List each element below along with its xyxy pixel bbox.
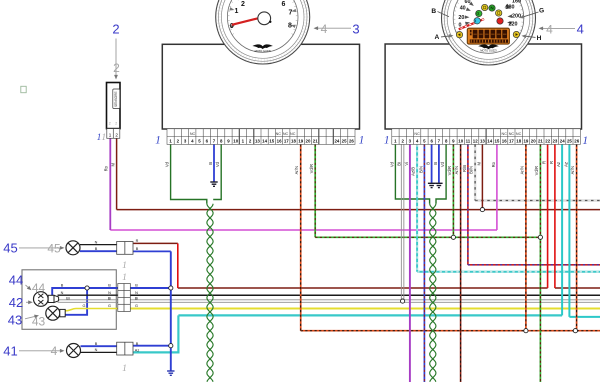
arrow to lamp 45 <box>19 246 65 250</box>
wire B U2 pin7 to ground <box>438 144 440 182</box>
lamp 44/42 (twin filament) <box>34 292 49 307</box>
gauge speedometer (item 4) <box>431 0 544 65</box>
wire Vd U2 pin8 <box>436 144 446 203</box>
wire B/N U2 pin5 <box>423 144 425 382</box>
arrow to lamp 44 <box>26 285 32 290</box>
wire Az/Gr horizontal from U2 pin4 <box>417 271 600 273</box>
connector strip U2 <box>392 129 581 145</box>
tachometer logo <box>252 44 273 49</box>
wire R/B U2 pin11 <box>467 144 469 264</box>
wire Vd/R U2 pin9 <box>452 144 454 237</box>
svg-text:22: 22 <box>545 139 550 144</box>
svg-text:Ro: Ro <box>104 165 109 171</box>
ground U2 pin6 <box>428 183 435 187</box>
indicator lamp turn left <box>456 32 462 38</box>
wire Vd/R horizontal U1 pin21 to U2 pin21 <box>315 236 540 238</box>
wire Bi from lamp 44 <box>58 300 131 303</box>
wire Vd/R U1 pin21 <box>314 144 316 237</box>
svg-text:24: 24 <box>334 139 339 144</box>
connector lamp 45 <box>117 242 133 255</box>
indicator lamp oil red <box>497 18 503 24</box>
wire Ar/N horizontal from U1 pin19 <box>301 330 600 332</box>
svg-text:220: 220 <box>509 21 518 27</box>
svg-text:2: 2 <box>241 1 245 8</box>
wire R from lamp 45 connector <box>133 242 178 244</box>
wire Az U2 pin25 <box>568 144 570 317</box>
component B2 (sensor, item 2) <box>107 83 121 129</box>
junction Ar/N at U2 pin19 <box>524 329 528 333</box>
wire B vertical to ground <box>170 251 172 370</box>
tachometer hub <box>258 12 271 25</box>
svg-text:10: 10 <box>458 139 463 144</box>
svg-text:45: 45 <box>47 241 61 255</box>
lamp 43 <box>46 306 60 320</box>
svg-text:NC: NC <box>190 132 196 136</box>
svg-text:N: N <box>95 348 98 352</box>
svg-text:Az: Az <box>556 162 561 167</box>
wire M vertical from B2 pin2 <box>116 138 118 209</box>
wire Ar/N U1 pin19 <box>300 144 302 330</box>
wire Ro U2 pin15 <box>496 144 498 230</box>
svg-text:3: 3 <box>352 22 359 37</box>
svg-text:24: 24 <box>560 139 565 144</box>
svg-text:Ar/N: Ar/N <box>294 166 299 174</box>
svg-text:Az/B: Az/B <box>411 167 416 176</box>
svg-text:7: 7 <box>289 9 293 16</box>
svg-text:Bi/N: Bi/N <box>469 166 474 174</box>
wire Bi/N U2 pin12 <box>474 144 476 200</box>
svg-text:B: B <box>136 247 139 251</box>
wire Ro horizontal from B2 pin1 to U2 pin15 <box>110 229 497 231</box>
svg-text:26: 26 <box>574 139 579 144</box>
arrow H <box>522 34 536 38</box>
connector lamp 41 <box>117 342 133 355</box>
junction B at 41 <box>169 344 173 348</box>
svg-text:20: 20 <box>306 139 311 144</box>
svg-text:Bi: Bi <box>135 297 139 301</box>
svg-text:26: 26 <box>349 139 354 144</box>
svg-text:SENSORE: SENSORE <box>114 91 118 107</box>
twisted pair left strand B <box>207 204 213 382</box>
wire R vertical from lamp 45 <box>177 243 179 288</box>
svg-text:14: 14 <box>262 139 267 144</box>
arrow to lamp 42 <box>26 300 33 304</box>
legend marker square <box>21 86 26 92</box>
wire R U2 pin22 <box>547 144 549 288</box>
svg-text:60: 60 <box>465 0 471 5</box>
wire N horizontal <box>130 294 600 296</box>
svg-text:B: B <box>136 342 139 346</box>
svg-text:2: 2 <box>113 61 120 75</box>
wire Az horizontal from U2 pin25 to edge <box>569 316 600 318</box>
svg-text:180: 180 <box>506 4 515 10</box>
ground U1 pin7 <box>210 182 217 186</box>
svg-text:4: 4 <box>546 22 553 36</box>
wire Ar/N U2 pin10 <box>460 144 462 382</box>
speedometer logo <box>478 45 499 50</box>
svg-text:23: 23 <box>552 139 557 144</box>
wire N lamp 41 <box>81 351 117 353</box>
indicator lamp fuel yellow <box>496 10 502 16</box>
svg-text:6: 6 <box>282 1 286 8</box>
svg-text:B: B <box>135 284 138 288</box>
junction Vd/R at U2 pin9 <box>451 235 455 239</box>
svg-text:Vd/R: Vd/R <box>534 166 539 175</box>
svg-text:N: N <box>135 291 138 295</box>
svg-text:Vi: Vi <box>404 162 409 166</box>
svg-text:13: 13 <box>480 139 485 144</box>
connector lamp box <box>118 284 131 312</box>
svg-text:13: 13 <box>255 139 260 144</box>
twisted pair left strand A <box>207 204 213 382</box>
svg-text:2: 2 <box>115 121 117 125</box>
svg-text:NC: NC <box>414 132 420 136</box>
svg-text:1: 1 <box>384 135 390 147</box>
instrument body U2 (speedometer unit) <box>385 44 581 129</box>
svg-text:Vd: Vd <box>440 161 445 167</box>
svg-text:Bi: Bi <box>397 162 402 166</box>
svg-text:M: M <box>110 163 115 167</box>
svg-text:G: G <box>108 304 111 308</box>
wire Vd U2 pin1 <box>395 144 429 203</box>
svg-text:8: 8 <box>288 22 292 29</box>
svg-text:B: B <box>95 342 98 346</box>
svg-text:R: R <box>136 239 139 243</box>
svg-text:1: 1 <box>155 135 161 147</box>
svg-text:B: B <box>431 8 436 15</box>
lamp 45 <box>66 241 80 255</box>
svg-text:G: G <box>83 304 86 308</box>
svg-text:20: 20 <box>458 15 464 21</box>
svg-text:14: 14 <box>487 139 492 144</box>
svg-text:N: N <box>95 240 98 244</box>
speedometer needle <box>459 19 484 29</box>
svg-text:NC: NC <box>516 132 522 136</box>
svg-text:43: 43 <box>8 313 22 328</box>
svg-text:1: 1 <box>235 8 239 15</box>
svg-text:12: 12 <box>473 139 478 144</box>
svg-text:18: 18 <box>291 139 296 144</box>
svg-text:4: 4 <box>51 344 58 358</box>
wire R U2 pin23 <box>554 144 556 288</box>
wire Az/Gr U2 pin4 <box>416 144 418 271</box>
twisted pair right strand A <box>430 204 436 382</box>
arrow to lamp 41 <box>19 349 65 353</box>
junction B inside lamp box <box>85 286 89 290</box>
arrow to speedometer <box>539 27 576 31</box>
wire Bi/N horizontal from U2 pin12 <box>475 199 600 201</box>
wire color code labels <box>104 161 576 176</box>
bulb holder 44 <box>48 295 58 302</box>
indicator lamp neutral N <box>489 5 495 11</box>
svg-text:18: 18 <box>516 139 521 144</box>
wire M horizontal from B2 pin2 <box>117 209 600 211</box>
indicator lamp turn right <box>513 31 519 37</box>
lamp housing box (items 42/43/44) <box>22 270 116 330</box>
svg-text:1: 1 <box>359 135 365 147</box>
arrow G <box>520 12 539 18</box>
svg-text:NC: NC <box>290 132 296 136</box>
svg-text:21: 21 <box>313 139 318 144</box>
wire M horizontal from U2 pin23 to edge <box>555 287 600 289</box>
indicator lamp warning yellow 1 <box>482 4 488 10</box>
svg-text:R: R <box>549 161 554 164</box>
svg-text:NC: NC <box>509 132 515 136</box>
svg-text:19: 19 <box>523 139 528 144</box>
svg-text:11: 11 <box>466 139 471 144</box>
wire B lamp 45 <box>80 250 117 252</box>
svg-text:Az: Az <box>563 162 568 167</box>
svg-text:42: 42 <box>9 295 23 310</box>
wire R/B horizontal from U2 pin11 <box>468 264 600 266</box>
svg-text:Ar/N: Ar/N <box>570 166 575 174</box>
wire M U2 pin13 <box>481 144 483 209</box>
junction Ar/N at U2 pin26 <box>573 329 577 333</box>
wire B row from lamp 41 connector <box>130 345 171 347</box>
svg-text:19: 19 <box>298 139 303 144</box>
svg-text:2: 2 <box>115 132 118 137</box>
indicator lamp high beam blue <box>474 18 480 24</box>
instrument body U1 (tachometer unit) <box>162 44 359 129</box>
wire Az vertical from lamp 41 <box>177 315 179 352</box>
svg-text:B: B <box>108 284 111 288</box>
svg-text:21: 21 <box>538 139 543 144</box>
junction B at 45/44 <box>169 286 173 290</box>
wire Vd U1 pin1 <box>171 144 207 203</box>
svg-text:B: B <box>426 162 431 165</box>
wire B U2 pin6 to ground <box>431 144 433 182</box>
svg-text:1: 1 <box>122 261 127 271</box>
wire Bi horizontal <box>130 300 600 303</box>
arrow to tachometer <box>314 26 352 30</box>
svg-text:25: 25 <box>342 139 347 144</box>
svg-text:1: 1 <box>122 273 127 283</box>
svg-text:G: G <box>539 7 544 14</box>
svg-text:Ro: Ro <box>491 161 496 167</box>
wire Ar/N U2 pin26 <box>576 144 578 330</box>
wire B lamp 41 <box>81 345 117 347</box>
wire G from lamp 43 <box>65 309 130 311</box>
arrow A <box>441 34 454 38</box>
wire G horizontal <box>130 308 600 310</box>
wire N from lamp 44 <box>58 294 131 296</box>
wire B from lamp 44 <box>52 288 130 296</box>
svg-text:N: N <box>61 291 64 295</box>
bulb holder 43 <box>60 309 65 316</box>
svg-text:Vd/R: Vd/R <box>309 164 314 173</box>
svg-text:45: 45 <box>3 241 17 256</box>
arrow to B2 <box>114 39 118 80</box>
junction M at U2 pin13 <box>480 208 484 212</box>
svg-text:25: 25 <box>567 139 572 144</box>
svg-text:B: B <box>208 162 213 165</box>
wire B from lamp 43 <box>65 288 87 315</box>
wire B row from lamp box connector <box>130 287 171 289</box>
svg-text:1: 1 <box>582 135 588 147</box>
twisted pair right strand B <box>430 204 436 382</box>
gauge tachometer (item 3) <box>216 0 310 64</box>
svg-text:G: G <box>135 304 138 308</box>
wire Az U2 pin24 <box>561 144 563 315</box>
junction Bi at U2 pin2 <box>401 299 405 303</box>
connector strip U1 <box>167 129 355 145</box>
svg-text:16: 16 <box>502 139 507 144</box>
svg-text:1: 1 <box>122 364 127 374</box>
svg-text:20: 20 <box>531 139 536 144</box>
wire B U1 pin7 to ground <box>213 144 215 181</box>
svg-text:1: 1 <box>101 133 106 143</box>
wire Az horizontal to U2 pin24 <box>178 314 562 316</box>
wire Vd U1 pin8 <box>213 144 221 199</box>
svg-text:Bi: Bi <box>108 297 112 301</box>
indicator lamp headlight green <box>476 10 482 16</box>
svg-text:44: 44 <box>9 273 23 288</box>
wire M horizontal to U2 pin22 <box>178 287 548 289</box>
wire Az row from lamp 41 connector <box>132 351 180 353</box>
svg-text:Vd: Vd <box>165 161 170 167</box>
svg-text:4: 4 <box>577 22 584 37</box>
svg-text:1: 1 <box>109 132 112 137</box>
svg-text:Vd/R: Vd/R <box>447 166 452 175</box>
tachometer needle <box>232 18 258 24</box>
svg-text:Ar/N: Ar/N <box>454 166 459 174</box>
svg-text:2: 2 <box>112 22 119 37</box>
wire Ro vertical from B2 pin1 <box>109 138 111 230</box>
svg-text:Vd: Vd <box>215 161 220 167</box>
lamp 41 <box>67 344 81 358</box>
svg-text:15: 15 <box>269 139 274 144</box>
svg-text:MOTO GUZZI: MOTO GUZZI <box>480 49 497 53</box>
svg-text:Vd: Vd <box>389 161 394 167</box>
svg-text:16: 16 <box>277 139 282 144</box>
wire Ar/N U2 pin19 <box>525 144 527 330</box>
svg-text:43: 43 <box>32 315 46 329</box>
svg-text:R/B: R/B <box>462 165 467 172</box>
wire Vi U2 pin3 <box>409 144 411 382</box>
svg-text:15: 15 <box>494 139 499 144</box>
ground U2 pin7 <box>435 183 442 187</box>
svg-text:17: 17 <box>284 139 289 144</box>
svg-text:200: 200 <box>512 14 521 20</box>
svg-text:B/N: B/N <box>418 166 423 173</box>
svg-text:40: 40 <box>460 5 466 11</box>
ground lamp circuit <box>167 371 174 375</box>
svg-text:R: R <box>542 161 547 164</box>
svg-text:Az: Az <box>135 348 140 352</box>
svg-text:M: M <box>476 162 481 166</box>
svg-text:MOTO GUZZI: MOTO GUZZI <box>255 49 272 53</box>
wire Bi U2 pin2 <box>401 144 404 301</box>
connector B2 <box>107 129 120 139</box>
svg-text:17: 17 <box>509 139 514 144</box>
svg-text:10: 10 <box>233 139 238 144</box>
junction Vd/R at U2 pin21 <box>538 235 542 239</box>
svg-text:A: A <box>435 34 440 41</box>
svg-text:NC: NC <box>283 132 289 136</box>
wire B from lamp 45 connector <box>133 250 171 252</box>
svg-text:41: 41 <box>3 344 17 359</box>
svg-text:Bi: Bi <box>66 297 70 301</box>
wire N lamp 45 <box>80 244 117 246</box>
svg-text:B: B <box>95 247 98 251</box>
svg-text:NC: NC <box>276 132 282 136</box>
svg-text:4: 4 <box>321 22 328 36</box>
svg-text:B: B <box>433 162 438 165</box>
svg-text:2: 2 <box>109 121 111 125</box>
svg-text:NC: NC <box>502 132 508 136</box>
LCD display <box>467 28 509 44</box>
svg-text:Ar/N: Ar/N <box>520 166 525 174</box>
arrow to lamp 43 <box>25 315 39 319</box>
wire Vd/R U2 pin21 <box>539 144 541 382</box>
svg-text:B: B <box>61 284 64 288</box>
svg-text:H: H <box>537 35 542 42</box>
svg-text:N: N <box>108 291 111 295</box>
